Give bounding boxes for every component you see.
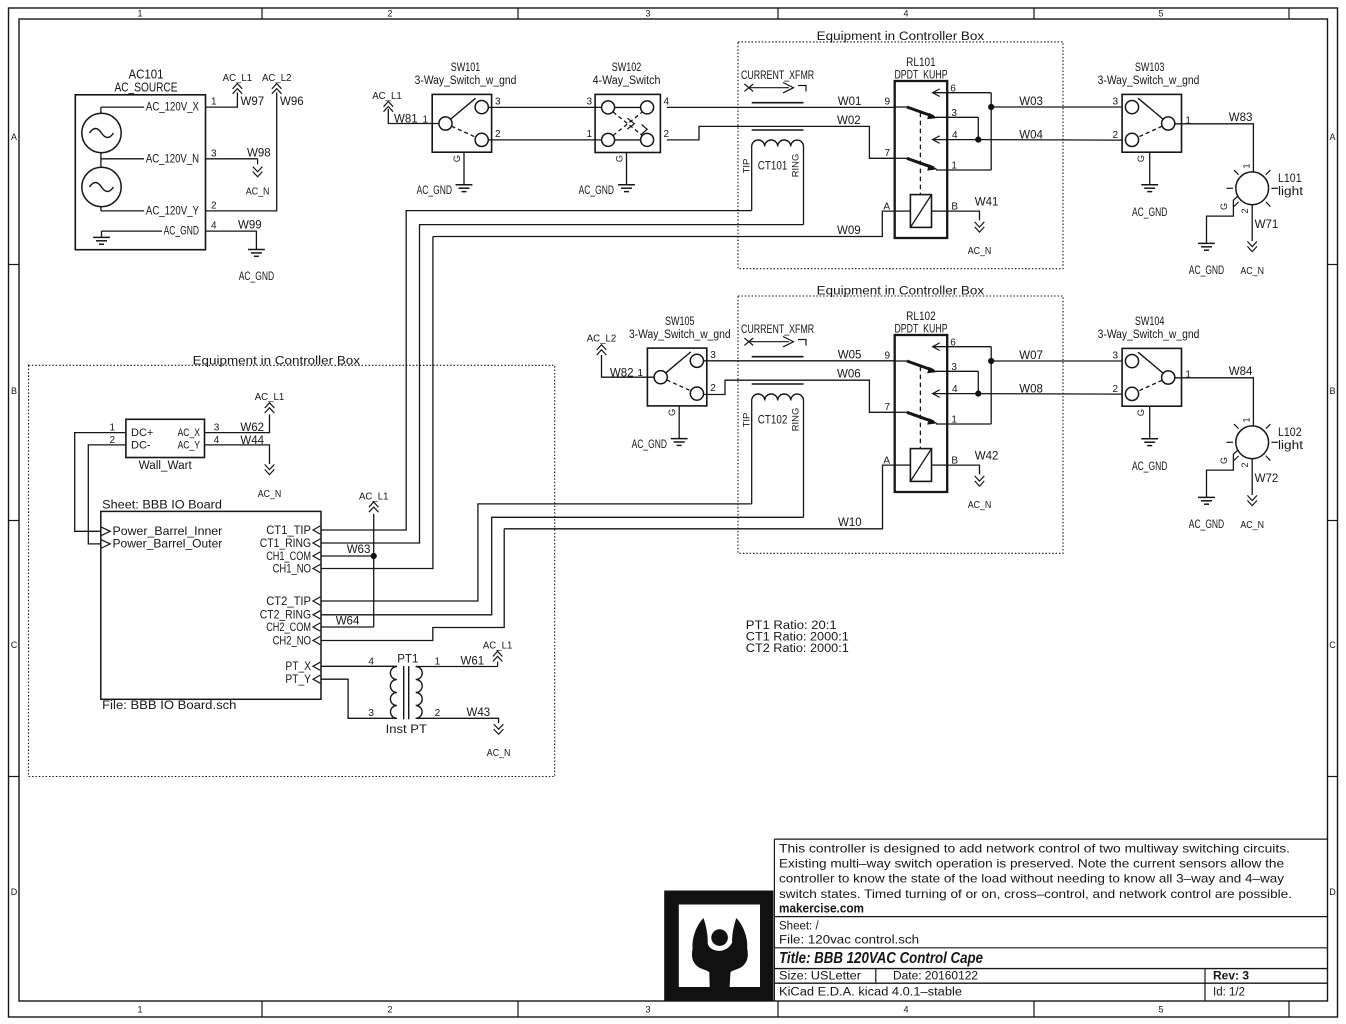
svg-text:3: 3 — [645, 1005, 650, 1015]
svg-text:Equipment in Controller Box: Equipment in Controller Box — [193, 356, 361, 368]
wire CT2_RING to CT102 — [321, 517, 804, 615]
svg-text:W64: W64 — [336, 615, 360, 627]
svg-text:AC_N: AC_N — [1240, 266, 1264, 277]
svg-text:RL101: RL101 — [906, 57, 936, 69]
RL102 coil box — [910, 449, 931, 482]
svg-text:Sheet: BBB IO Board: Sheet: BBB IO Board — [102, 500, 222, 512]
svg-text:CT1_RING: CT1_RING — [260, 536, 311, 550]
RL101 mechanical link dashed — [919, 113, 921, 195]
svg-text:File: 120vac control.sch: File: 120vac control.sch — [779, 935, 919, 947]
CT101 TIP lead — [751, 147, 753, 211]
svg-text:PT1 Ratio: 20:1: PT1 Ratio: 20:1 — [746, 620, 837, 632]
inductor CT101 secondary coil — [752, 140, 804, 147]
svg-text:light: light — [1278, 440, 1304, 452]
wire L101 G pin to ground — [1207, 196, 1238, 243]
svg-text:CT102: CT102 — [758, 414, 788, 426]
svg-text:B: B — [11, 386, 17, 396]
svg-text:W99: W99 — [238, 220, 262, 232]
wire CH2_COM W64 to AC_L1 — [321, 626, 374, 628]
svg-text:1: 1 — [586, 129, 592, 140]
wire AC101 pin2 to AC_L2 — [206, 93, 277, 211]
RL101 pin 6 line with arrow — [933, 89, 940, 97]
svg-text:TIP: TIP — [741, 159, 752, 174]
ground symbol AC_GND at SW104 — [1141, 438, 1158, 440]
wire SW101 pin3 to SW102 pin3 — [488, 106, 601, 108]
svg-text:6: 6 — [950, 84, 956, 95]
svg-text:W81: W81 — [394, 114, 418, 126]
svg-text:W05: W05 — [838, 349, 862, 361]
wire PT1 pin1 to AC_L1 — [416, 666, 498, 668]
svg-text:3: 3 — [951, 108, 957, 119]
svg-text:9: 9 — [884, 351, 890, 362]
wire PT1 pin2 to AC_N — [416, 718, 499, 723]
svg-text:DC-: DC- — [131, 440, 151, 452]
wire W07 RL102 to SW104 pin3 — [991, 360, 1122, 362]
ground symbol AC_GND at SW102 — [618, 184, 635, 186]
power label AC_N at L101 — [1247, 246, 1257, 251]
svg-text:3: 3 — [951, 362, 957, 373]
svg-text:9: 9 — [884, 97, 890, 108]
wire AC101 pin4 to ground — [206, 231, 257, 249]
power label text AC_GND at SW101 — [417, 185, 452, 197]
svg-text:2: 2 — [664, 129, 670, 140]
svg-text:AC_GND: AC_GND — [632, 439, 667, 451]
svg-text:C: C — [1329, 640, 1336, 650]
svg-text:3: 3 — [495, 97, 501, 108]
power label AC_L2 — [272, 84, 282, 89]
svg-text:2: 2 — [1112, 130, 1118, 141]
wire SW105 G to ground — [678, 406, 680, 439]
lamp L102 body — [1236, 426, 1269, 459]
wire SW104 G to ground — [1149, 406, 1151, 439]
svg-text:AC_GND: AC_GND — [417, 185, 452, 197]
sheet pin PT_X — [313, 662, 320, 670]
ground symbol AC_GND at AC101 — [248, 249, 265, 251]
svg-text:This controller is designed to: This controller is designed to add netwo… — [779, 842, 1290, 856]
RL101 pin 3 line — [936, 116, 978, 118]
CT101 core bar lower — [752, 129, 804, 131]
power label AC_L1 at SW101 — [384, 102, 394, 107]
power label AC_N down — [253, 172, 263, 177]
svg-text:1: 1 — [951, 161, 957, 172]
svg-text:AC_N: AC_N — [487, 748, 511, 759]
AC source sine circle 2 — [82, 167, 121, 206]
svg-text:Existing multi–way switch oper: Existing multi–way switch operation is p… — [779, 857, 1284, 871]
svg-text:W02: W02 — [837, 115, 861, 127]
makercise logo figure — [692, 918, 748, 987]
lamp L102 rays — [1271, 441, 1278, 443]
svg-text:W71: W71 — [1255, 219, 1279, 231]
svg-text:AC_GND: AC_GND — [239, 271, 274, 283]
switch SW103 3-Way_Switch_w_gnd mirrored — [1122, 94, 1181, 152]
power label AC_L1 at W63 — [369, 502, 379, 507]
wire CH2_NO W10 riser — [321, 529, 504, 641]
svg-text:3-Way_Switch_w_gnd: 3-Way_Switch_w_gnd — [1098, 329, 1200, 341]
frame row ticks right — [1328, 264, 1338, 266]
svg-text:DC+: DC+ — [131, 427, 153, 439]
svg-text:2: 2 — [1240, 208, 1250, 213]
RL101 pin A line — [895, 210, 911, 212]
power net AC_L1 vertical at W63 — [373, 514, 375, 627]
RL102 pin 1 line — [936, 423, 991, 425]
svg-text:PT_X: PT_X — [285, 659, 311, 673]
svg-text:5: 5 — [1158, 1005, 1163, 1015]
svg-text:A: A — [1329, 132, 1335, 142]
junction dot W08 — [975, 391, 981, 397]
dashed enclosure Equipment in Controller Box 3 — [29, 365, 555, 776]
svg-text:Title: BBB 120VAC Control Cape: Title: BBB 120VAC Control Cape — [779, 950, 983, 967]
svg-text:AC_L1: AC_L1 — [223, 73, 253, 84]
svg-text:AC_GND: AC_GND — [1132, 207, 1167, 219]
sheet pin CT1_TIP — [313, 526, 320, 534]
wire L102 G pin to ground — [1207, 450, 1238, 497]
SW102 straight-through contacts — [615, 106, 641, 108]
svg-text:CT101: CT101 — [758, 160, 788, 172]
frame row ticks left — [9, 264, 20, 266]
sheet pin PT_Y — [313, 675, 320, 683]
svg-text:G: G — [1136, 409, 1147, 416]
svg-text:1: 1 — [137, 1005, 142, 1015]
svg-text:L101: L101 — [1278, 173, 1302, 185]
title block outline — [773, 839, 775, 1001]
dashed enclosure Equipment in Controller Box 1 — [738, 42, 1063, 269]
wire SW101 pin1 to AC_L1 — [388, 109, 439, 124]
svg-text:CURRENT_XFMR: CURRENT_XFMR — [741, 70, 814, 82]
sheet pin CT2_RING — [313, 611, 320, 619]
svg-text:Wall_Wart: Wall_Wart — [139, 460, 193, 472]
sheet pin CT2_TIP — [313, 597, 320, 605]
svg-text:CT1_TIP: CT1_TIP — [266, 523, 311, 537]
svg-text:AC_GND: AC_GND — [164, 226, 199, 238]
wire SW102 G pin to ground — [626, 153, 628, 185]
RL102 contact lever 1 — [907, 361, 934, 371]
svg-text:switch states. Timed turning o: switch states. Timed turning of or on, c… — [779, 887, 1292, 901]
sheet pin CH2_NO — [313, 636, 320, 644]
svg-text:3: 3 — [645, 9, 650, 19]
svg-text:W97: W97 — [241, 96, 265, 108]
SW102 contact circles — [602, 101, 615, 114]
wire CT1_TIP to CT101 — [321, 211, 752, 530]
ground symbol AC_GND at L102 — [1198, 496, 1215, 498]
svg-text:CT2 Ratio: 2000:1: CT2 Ratio: 2000:1 — [746, 643, 849, 655]
RL102 pin 3 line — [936, 370, 978, 372]
component AC101 AC_SOURCE body — [75, 95, 205, 250]
RL102 contact lever 2 — [907, 412, 934, 422]
svg-text:W63: W63 — [347, 544, 371, 556]
wire AC101 pin3 to AC_N — [206, 158, 258, 160]
svg-text:7: 7 — [884, 402, 890, 413]
svg-text:AC_GND: AC_GND — [1189, 519, 1224, 531]
svg-text:3-Way_Switch_w_gnd: 3-Way_Switch_w_gnd — [629, 329, 731, 341]
power label AC_L1 at PT1 — [493, 651, 503, 656]
svg-text:light: light — [1278, 186, 1304, 198]
SW102 crossed dashed contacts — [613, 112, 642, 136]
svg-text:G: G — [1219, 457, 1229, 464]
transformer PT1 secondary coil — [416, 667, 423, 719]
current transformer symbol CURRENT_XFMR 2 — [741, 324, 814, 336]
wire W84 SW104 pin1 to L102 — [1175, 378, 1253, 426]
svg-text:3: 3 — [1112, 351, 1118, 362]
switch SW102 4-Way_Switch body — [595, 94, 660, 152]
ground symbol AC_GND at SW103 — [1141, 184, 1158, 186]
wire SW103 G to ground — [1149, 152, 1151, 185]
sheet pin CH2_COM — [313, 623, 320, 631]
svg-text:RING: RING — [791, 408, 802, 432]
junction dot W07 — [988, 358, 994, 364]
svg-text:CH2_COM: CH2_COM — [266, 620, 311, 634]
sheet pin Power_Barrel_Inner — [102, 527, 111, 535]
svg-text:SW103: SW103 — [1135, 62, 1165, 74]
AC101 internal ground symbol — [93, 236, 110, 238]
svg-text:6: 6 — [950, 338, 956, 349]
svg-text:Size: USLetter: Size: USLetter — [779, 971, 861, 983]
svg-text:G: G — [615, 155, 626, 162]
RL102 3-4 vertical connection — [977, 371, 979, 393]
AC101 internal wiring — [100, 107, 102, 113]
ground symbol AC_GND at L101 — [1198, 242, 1215, 244]
wire Wall_Wart pin3 to AC_L1 — [205, 415, 270, 433]
makercise logo black square — [664, 891, 773, 1002]
svg-text:2: 2 — [387, 9, 392, 19]
RL101 contact lever 2 — [907, 158, 934, 168]
wire W04 RL101 to SW103 pin2 — [978, 139, 1122, 142]
switch SW105 3-Way_Switch_w_gnd — [647, 348, 706, 406]
svg-text:2: 2 — [495, 129, 501, 140]
SW102 cross arrowheads — [627, 118, 634, 129]
svg-text:AC_N: AC_N — [246, 187, 270, 198]
svg-text:SW102: SW102 — [612, 62, 642, 74]
frame column ticks top — [261, 8, 263, 19]
RL102 pin 9 stub — [895, 360, 907, 362]
RL101 pin 7 stub — [895, 157, 907, 159]
dashed enclosure Equipment in Controller Box 2 — [738, 296, 1063, 553]
svg-text:AC_120V_N: AC_120V_N — [146, 153, 199, 165]
svg-text:AC_L1: AC_L1 — [359, 491, 389, 502]
wire L102 pin2 to AC_N — [1251, 459, 1253, 495]
svg-text:G: G — [667, 409, 678, 416]
svg-text:Power_Barrel_Outer: Power_Barrel_Outer — [113, 537, 223, 551]
makercise logo white inner square — [679, 905, 760, 988]
power label AC_N at RL101 — [975, 227, 985, 232]
wire W06 SW105 pin2 to RL102 pin7 — [703, 380, 895, 412]
svg-text:W96: W96 — [280, 96, 304, 108]
power label AC_N at L102 — [1247, 500, 1257, 505]
svg-text:AC_L1: AC_L1 — [483, 640, 513, 651]
wire CT1_RING to CT101 — [321, 225, 804, 543]
relay RL102 DPDT_KUHP body — [895, 335, 948, 492]
wire W03 RL101 to SW103 pin3 — [991, 106, 1122, 108]
svg-text:4: 4 — [952, 130, 958, 141]
svg-text:W06: W06 — [837, 369, 861, 381]
wire AC101 pin1 to AC_L1 — [206, 93, 238, 108]
wire W01 SW102 pin4 to RL101 pin9 — [667, 106, 895, 108]
svg-text:AC_GND: AC_GND — [1132, 461, 1167, 473]
component Wall_Wart body — [126, 419, 205, 457]
svg-text:W01: W01 — [838, 96, 862, 108]
wire Wall_Wart pin1 to Power_Barrel_Inner — [75, 433, 126, 532]
svg-text:SW105: SW105 — [665, 316, 695, 328]
svg-text:1: 1 — [1185, 116, 1191, 127]
svg-text:5: 5 — [1158, 9, 1163, 19]
svg-text:3: 3 — [1112, 97, 1118, 108]
title block divider size/date — [875, 969, 877, 984]
svg-text:makercise.com: makercise.com — [779, 902, 864, 916]
svg-text:SW104: SW104 — [1135, 316, 1165, 328]
wire L101 pin2 to AC_N — [1251, 205, 1253, 241]
CT101 RING lead — [803, 147, 805, 225]
svg-text:AC_L1: AC_L1 — [255, 392, 285, 403]
current transformer symbol CURRENT_XFMR 1 — [741, 70, 814, 82]
svg-text:2: 2 — [1240, 462, 1250, 467]
CT102 core bar upper — [752, 356, 804, 358]
hierarchical sheet BBB IO Board — [101, 511, 321, 699]
svg-text:CT1 Ratio: 2000:1: CT1 Ratio: 2000:1 — [746, 632, 849, 644]
svg-text:AC_L2: AC_L2 — [587, 334, 617, 345]
sheet pin CT1_RING — [313, 539, 320, 547]
RL101 pin 9 stub — [895, 106, 907, 108]
svg-text:3: 3 — [710, 350, 716, 361]
RL101 3-4 vertical connection — [977, 117, 979, 139]
svg-text:DPDT_KUHP: DPDT_KUHP — [894, 70, 947, 82]
svg-text:AC_N: AC_N — [968, 246, 992, 257]
svg-text:1: 1 — [137, 9, 142, 19]
CT101 core bar upper — [752, 102, 804, 104]
svg-text:PT_Y: PT_Y — [285, 672, 311, 686]
svg-text:D: D — [11, 887, 18, 897]
junction dot W63 AC_L1 — [371, 553, 377, 559]
svg-text:3-Way_Switch_w_gnd: 3-Way_Switch_w_gnd — [1098, 75, 1200, 87]
svg-text:L102: L102 — [1278, 427, 1302, 439]
svg-text:AC101: AC101 — [129, 68, 164, 82]
svg-text:AC_SOURCE: AC_SOURCE — [115, 81, 178, 95]
svg-text:4: 4 — [952, 384, 958, 395]
inductor CT102 secondary coil — [752, 394, 804, 401]
svg-text:AC_GND: AC_GND — [579, 185, 614, 197]
wire W09 CH1_NO to RL101 pinA — [433, 211, 895, 236]
CT102 TIP lead — [751, 401, 753, 504]
svg-text:B: B — [1329, 386, 1335, 396]
frame column ticks bottom — [261, 1001, 263, 1017]
svg-text:4: 4 — [664, 97, 670, 108]
RL102 mechanical link dashed — [919, 367, 921, 449]
svg-text:Sheet: /: Sheet: / — [779, 921, 819, 933]
svg-text:2: 2 — [435, 708, 441, 719]
svg-text:1: 1 — [1242, 163, 1252, 168]
svg-text:CURRENT_XFMR: CURRENT_XFMR — [741, 324, 814, 336]
svg-text:RL102: RL102 — [906, 311, 936, 323]
svg-text:1: 1 — [1242, 417, 1252, 422]
svg-text:KiCad E.D.A. kicad 4.0.1–stab: KiCad E.D.A. kicad 4.0.1–stable — [779, 986, 962, 998]
wire W10 CH2_NO to RL102 pinA — [504, 465, 895, 529]
svg-text:AC_N: AC_N — [968, 500, 992, 511]
svg-text:CT2_TIP: CT2_TIP — [266, 594, 311, 608]
svg-text:TIP: TIP — [741, 413, 752, 428]
wire W08 RL102 to SW104 pin2 — [978, 393, 1122, 396]
RL102 pin 6 line with arrow — [933, 343, 940, 351]
svg-text:W84: W84 — [1229, 366, 1253, 378]
svg-text:1: 1 — [211, 97, 217, 108]
svg-text:C: C — [11, 640, 18, 650]
RL102 pin A line — [895, 464, 911, 466]
power label AC_L2 at SW105 — [597, 345, 607, 350]
svg-text:4: 4 — [903, 1005, 908, 1015]
wire RL101 pinB to AC_N — [947, 211, 979, 220]
AC101 internal ground stub — [101, 231, 103, 237]
makercise logo head — [711, 929, 728, 946]
svg-text:W61: W61 — [461, 656, 485, 668]
svg-text:Equipment in Controller Box: Equipment in Controller Box — [817, 31, 985, 43]
svg-text:2: 2 — [211, 201, 217, 212]
switch SW104 3-Way_Switch_w_gnd mirrored — [1122, 348, 1181, 406]
wire PT_Y to PT1 pin3 — [321, 679, 397, 718]
svg-text:Equipment in Controller Box: Equipment in Controller Box — [817, 285, 985, 297]
relay RL101 DPDT_KUHP body — [895, 81, 948, 238]
svg-text:W82: W82 — [610, 367, 634, 379]
wire CT2_TIP to CT102 — [321, 504, 752, 601]
power label AC_N at PT1 — [494, 729, 504, 734]
svg-text:2: 2 — [1112, 384, 1118, 395]
wire PT_X to PT1 pin4 — [321, 665, 397, 667]
svg-text:Id: 1/2: Id: 1/2 — [1213, 986, 1245, 998]
RL101 6-1 vertical connection — [990, 93, 992, 170]
ground symbol AC_GND at SW101 — [456, 184, 473, 186]
RL101 contact lever 1 — [907, 107, 934, 117]
svg-text:G: G — [452, 155, 463, 162]
svg-text:AC_120V_Y: AC_120V_Y — [146, 205, 199, 217]
svg-text:W43: W43 — [467, 707, 491, 719]
svg-text:W07: W07 — [1019, 350, 1043, 362]
svg-text:3: 3 — [586, 97, 592, 108]
svg-text:W41: W41 — [975, 196, 999, 208]
power label AC_L1 — [233, 84, 243, 89]
svg-text:W42: W42 — [975, 450, 999, 462]
svg-text:3: 3 — [211, 148, 217, 159]
svg-text:Inst PT: Inst PT — [386, 724, 427, 736]
wire CH1_COM to AC_L1 W63 — [321, 555, 374, 557]
svg-text:G: G — [1219, 203, 1229, 210]
svg-text:CH2_NO: CH2_NO — [273, 633, 311, 647]
power label AC_N at Wall_Wart — [265, 469, 275, 474]
svg-text:1: 1 — [1185, 370, 1191, 381]
svg-text:AC_GND: AC_GND — [1189, 265, 1224, 277]
wire RL102 pinB to AC_N — [947, 465, 979, 474]
AC source sine circle 1 — [82, 113, 121, 152]
svg-text:CH1_NO: CH1_NO — [273, 561, 311, 575]
svg-text:AC_L2: AC_L2 — [262, 73, 292, 84]
svg-text:W83: W83 — [1229, 112, 1253, 124]
svg-text:W08: W08 — [1019, 383, 1043, 395]
svg-text:W04: W04 — [1019, 129, 1043, 141]
svg-text:Date: 20160122: Date: 20160122 — [893, 971, 978, 983]
svg-text:1: 1 — [951, 415, 957, 426]
svg-text:AC_N: AC_N — [258, 489, 282, 500]
svg-text:File: BBB IO Board.sch: File: BBB IO Board.sch — [102, 700, 236, 712]
svg-text:W03: W03 — [1019, 96, 1043, 108]
svg-text:AC_X: AC_X — [178, 427, 201, 439]
RL102 pin 7 stub — [895, 411, 907, 413]
svg-text:4: 4 — [211, 221, 217, 232]
ground symbol AC_GND at SW105 — [671, 438, 688, 440]
svg-text:7: 7 — [884, 148, 890, 159]
RL101 pin B line — [932, 210, 948, 212]
RL102 pin B line — [932, 464, 948, 466]
svg-text:3-Way_Switch_w_gnd: 3-Way_Switch_w_gnd — [415, 75, 517, 87]
sheet pin CH1_COM — [313, 552, 320, 560]
svg-text:4: 4 — [903, 9, 908, 19]
junction dot W04 — [975, 137, 981, 143]
svg-text:controller to know the state o: controller to know the state of the load… — [779, 872, 1284, 886]
RL102 6-1 vertical connection — [990, 347, 992, 424]
